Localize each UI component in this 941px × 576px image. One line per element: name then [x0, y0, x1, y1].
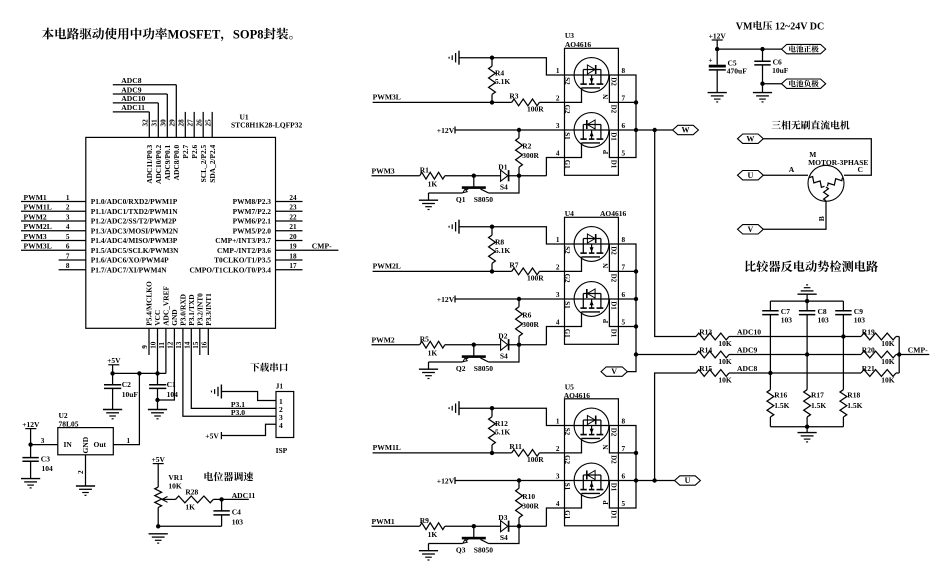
pin labels U4 row3 — [556, 291, 626, 299]
svg-text:R15: R15 — [699, 364, 712, 373]
svg-text:470uF: 470uF — [727, 67, 747, 76]
svg-text:PWM5/P2.0: PWM5/P2.0 — [233, 226, 272, 235]
svg-text:4: 4 — [279, 421, 283, 430]
wire net PWM2L — [373, 262, 512, 272]
rotated label G1 — [563, 510, 571, 519]
junction — [517, 478, 521, 482]
mcu pin 7 — [59, 252, 169, 264]
svg-text:2: 2 — [556, 263, 560, 271]
rotated label S1 — [563, 132, 571, 140]
resistor R16 1.5K — [767, 390, 790, 427]
ground — [798, 285, 817, 301]
wire W to ADC10 — [655, 130, 696, 337]
junction — [517, 174, 521, 178]
mcu pin 2 PWM1L — [21, 203, 178, 216]
net tag V — [601, 367, 627, 376]
capacitor C9 103 — [835, 301, 865, 325]
mcu pin 4 PWM2L — [21, 222, 179, 235]
mcu pin 12 GND — [158, 309, 180, 400]
svg-text:R9: R9 — [420, 516, 429, 525]
rotated label D2 — [610, 77, 618, 86]
svg-text:PWM2: PWM2 — [24, 212, 47, 221]
svg-text:V: V — [748, 225, 754, 234]
svg-text:C4: C4 — [232, 507, 241, 516]
mcu pin 6 PWM3L — [21, 242, 179, 255]
svg-text:R3: R3 — [509, 91, 518, 100]
svg-text:+12V: +12V — [22, 420, 40, 429]
ground — [76, 486, 95, 495]
svg-text:A: A — [789, 165, 795, 174]
wire bus U5 drains — [618, 426, 636, 509]
junction — [490, 56, 494, 60]
svg-text:R10: R10 — [522, 492, 535, 501]
svg-text:10K: 10K — [718, 376, 732, 385]
rotated label D1 — [610, 329, 618, 338]
ground — [798, 427, 817, 442]
junction — [110, 371, 114, 375]
rotated label G2 — [563, 274, 571, 283]
junction — [652, 478, 656, 482]
junction — [490, 100, 494, 104]
junction — [653, 128, 657, 132]
capacitor C7 103 — [762, 301, 792, 325]
title note — [42, 27, 293, 41]
svg-text:PWM6/P2.1: PWM6/P2.1 — [233, 217, 272, 226]
svg-text:20: 20 — [289, 233, 297, 241]
svg-text:VM: VM — [736, 21, 753, 32]
svg-text:R7: R7 — [509, 260, 518, 269]
net tag U2 — [738, 171, 764, 180]
wire column C7 — [769, 315, 771, 390]
ground — [708, 93, 727, 102]
wire — [609, 426, 618, 453]
svg-text:STC8H1K28-LQFP32: STC8H1K28-LQFP32 — [231, 121, 303, 130]
wire — [489, 176, 520, 193]
svg-text:10K: 10K — [718, 339, 732, 348]
svg-text:R21: R21 — [862, 364, 875, 373]
svg-text:R18: R18 — [847, 391, 860, 400]
capacitor C5 470uF — [709, 49, 748, 93]
rotated label D2 — [610, 246, 618, 255]
power +12V — [709, 31, 727, 49]
wire net CMP- — [899, 346, 929, 355]
wire — [609, 244, 618, 271]
resistor R28 — [176, 488, 214, 512]
junction — [490, 269, 494, 273]
wire — [489, 345, 520, 362]
pin labels U3 row1 — [556, 67, 626, 75]
svg-text:8: 8 — [622, 236, 626, 244]
pin labels U5 row4 — [556, 500, 626, 508]
pin labels U3 row2 — [556, 94, 626, 102]
resistor R1 1K — [420, 165, 501, 188]
connector J1 body — [276, 382, 294, 455]
svg-text:2: 2 — [66, 204, 70, 212]
junction — [517, 343, 521, 347]
svg-text:ADC10/P0.2: ADC10/P0.2 — [154, 145, 163, 185]
svg-text:300R: 300R — [522, 151, 539, 160]
svg-text:C2: C2 — [122, 380, 131, 389]
svg-text:R19: R19 — [862, 327, 875, 336]
svg-text:1: 1 — [556, 67, 560, 75]
wire U2 pin3 — [31, 437, 58, 445]
svg-text:IN: IN — [64, 440, 73, 449]
wire J1 pin2 P3.1 — [231, 400, 245, 409]
ground — [103, 410, 122, 419]
svg-text:5.1K: 5.1K — [495, 428, 510, 437]
ground — [419, 193, 438, 210]
diode D3 S4 — [498, 513, 508, 542]
junction — [472, 343, 476, 347]
mcu pin 29 — [169, 85, 182, 181]
svg-text:ADC8: ADC8 — [737, 364, 757, 373]
wire U2 pin2 gnd — [77, 455, 85, 486]
svg-text:6: 6 — [622, 122, 626, 130]
svg-text:AO4616: AO4616 — [565, 40, 592, 49]
mcu pin 28 — [178, 112, 191, 159]
resistor R7 100R — [509, 260, 564, 282]
svg-text:R6: R6 — [522, 310, 531, 319]
svg-text:ADC11: ADC11 — [121, 103, 145, 112]
svg-text:G2: G2 — [563, 274, 571, 283]
mcu pin 24 — [233, 194, 303, 206]
pin labels U3 row4 — [556, 150, 626, 158]
power +5V — [152, 455, 166, 487]
wire bus U3 drains — [618, 75, 636, 158]
svg-text:GND: GND — [81, 436, 90, 453]
wire +5V to U2 out — [113, 373, 139, 444]
svg-text:D2: D2 — [610, 246, 618, 255]
wire W out — [636, 129, 673, 131]
svg-text:R20: R20 — [862, 345, 875, 354]
net tag battery- — [782, 79, 826, 88]
svg-text:103: 103 — [232, 518, 244, 527]
svg-text:1.5K: 1.5K — [774, 401, 789, 410]
svg-text:ADC10: ADC10 — [737, 327, 761, 336]
resistor R6 300R — [516, 299, 540, 345]
rotated label S2 — [563, 428, 571, 436]
svg-text:U: U — [748, 171, 754, 180]
svg-text:7: 7 — [66, 252, 70, 260]
svg-text:CMP+/INT3/P3.7: CMP+/INT3/P3.7 — [215, 236, 271, 245]
svg-text:P3.0: P3.0 — [231, 408, 245, 417]
svg-text:S1: S1 — [563, 483, 571, 491]
rotated label D2 — [610, 105, 618, 114]
svg-text:S8050: S8050 — [474, 195, 493, 204]
svg-text:8: 8 — [622, 418, 626, 426]
svg-text:S8050: S8050 — [474, 364, 493, 373]
rotated label S2 — [563, 77, 571, 85]
svg-text:3: 3 — [556, 122, 560, 130]
wire — [509, 508, 565, 526]
junction — [634, 297, 638, 301]
svg-text:6: 6 — [66, 243, 70, 251]
mcu pin 15 P3.2/INT0 — [192, 293, 205, 355]
ground — [148, 410, 167, 419]
junction — [137, 371, 141, 375]
wire — [429, 361, 463, 363]
regulator U2 78L05 body — [58, 411, 131, 455]
wire net ADC8 — [113, 76, 177, 85]
wire — [158, 525, 221, 527]
junction — [517, 524, 521, 528]
wire J1 pin3 P3.0 — [231, 408, 245, 417]
svg-text:2: 2 — [556, 445, 560, 453]
svg-text:W: W — [682, 126, 690, 135]
svg-text:J1: J1 — [276, 382, 284, 391]
svg-text:Out: Out — [94, 440, 107, 449]
junction — [490, 451, 494, 455]
mcu pin 23 — [233, 204, 303, 216]
wire — [459, 408, 565, 425]
resistor R11 100R — [509, 442, 564, 464]
svg-text:17: 17 — [289, 262, 297, 270]
junction — [634, 478, 638, 482]
svg-text:PWM3: PWM3 — [24, 232, 47, 241]
svg-text:D1: D1 — [610, 132, 618, 141]
dual mosfet U3 AO4616 body — [565, 31, 619, 175]
mcu pin 20 — [215, 233, 302, 245]
label VM voltage — [736, 21, 824, 33]
wire — [763, 165, 808, 175]
svg-text:11: 11 — [158, 342, 166, 349]
svg-text:D2: D2 — [610, 274, 618, 283]
svg-text:+12V: +12V — [437, 477, 455, 486]
transistor Q3 S8050 — [456, 526, 493, 554]
mcu pin 17 — [189, 262, 302, 274]
mcu U1 body — [86, 137, 276, 328]
junction — [805, 352, 809, 356]
svg-text:PWM1L: PWM1L — [24, 203, 52, 212]
svg-text:CMP-: CMP- — [908, 346, 928, 355]
svg-text:10K: 10K — [881, 339, 895, 348]
junction — [634, 100, 638, 104]
potentiometer VR1 — [155, 473, 183, 526]
mosfet N-channel of U4 — [565, 227, 619, 272]
wire — [509, 327, 565, 345]
svg-text:1K: 1K — [428, 180, 438, 189]
svg-text:29: 29 — [169, 119, 177, 127]
ground — [212, 385, 222, 399]
svg-text:32: 32 — [142, 119, 150, 127]
wire — [609, 299, 618, 327]
svg-text:16: 16 — [201, 341, 209, 349]
resistor R14 10K — [696, 345, 861, 366]
svg-text:S8050: S8050 — [474, 545, 493, 554]
wire — [609, 75, 618, 102]
diode D2 S4 — [498, 331, 508, 360]
svg-text:CMPO/T1CLKO/T0/P3.4: CMPO/T1CLKO/T0/P3.4 — [189, 265, 271, 274]
ground — [419, 544, 438, 561]
mcu U1 refdes — [231, 113, 303, 130]
junction — [634, 324, 638, 328]
mosfet P-channel of U5 — [565, 463, 619, 508]
resistor R20 10K — [861, 345, 899, 366]
wire — [763, 139, 871, 176]
svg-text:W: W — [746, 134, 754, 143]
resistor R10 300R — [516, 481, 540, 527]
junction — [768, 371, 772, 375]
svg-text:G1: G1 — [563, 329, 571, 338]
svg-text:30: 30 — [160, 119, 168, 127]
svg-text:8: 8 — [66, 262, 70, 270]
svg-text:G1: G1 — [563, 160, 571, 169]
wire net ADC10 — [113, 94, 159, 103]
mcu pin 1 PWM1 — [21, 193, 178, 206]
wire — [429, 192, 463, 194]
svg-text:26: 26 — [195, 119, 203, 127]
wire net ADC11 — [113, 103, 150, 112]
svg-text:1.5K: 1.5K — [811, 401, 826, 410]
svg-text:U: U — [685, 476, 691, 485]
rotated label G1 — [563, 329, 571, 338]
wire J1 pin1 gnd — [221, 392, 276, 401]
svg-text:R1: R1 — [420, 165, 429, 174]
junction — [841, 334, 845, 338]
junction — [517, 297, 521, 301]
svg-text:S2: S2 — [563, 246, 571, 254]
svg-text:25: 25 — [204, 119, 212, 127]
junction — [634, 352, 638, 356]
dual mosfet U4 AO4616 body — [565, 209, 627, 344]
svg-text:PWM2L: PWM2L — [373, 262, 401, 271]
mcu pin 19 CMP- net — [217, 242, 338, 255]
pin labels U4 row4 — [556, 319, 626, 327]
rotated label D2 — [610, 428, 618, 437]
svg-text:5.1K: 5.1K — [495, 77, 510, 86]
pin labels U4 row1 — [556, 236, 626, 244]
svg-text:Q3: Q3 — [456, 545, 466, 554]
resistor R5 1K — [420, 334, 501, 357]
svg-text:V: V — [611, 367, 617, 376]
dual mosfet U5 AO4616 body — [564, 383, 619, 526]
label download port — [250, 363, 287, 372]
svg-text:1: 1 — [127, 437, 131, 445]
svg-text:D1: D1 — [610, 160, 618, 169]
svg-text:R16: R16 — [774, 391, 787, 400]
resistor R18 1.5K — [840, 390, 863, 427]
svg-text:R13: R13 — [699, 327, 712, 336]
pin labels U3 row3 — [556, 122, 626, 130]
wire J1 pin4 +5V — [205, 424, 276, 440]
svg-text:4: 4 — [556, 500, 560, 508]
svg-text:10: 10 — [150, 341, 158, 349]
ground — [419, 362, 438, 379]
power +12V — [22, 420, 40, 445]
svg-text:S1: S1 — [563, 132, 571, 140]
junction — [805, 425, 809, 429]
wire bus U4 drains — [618, 244, 636, 372]
ground — [449, 401, 459, 415]
junction — [155, 398, 159, 402]
svg-text:5: 5 — [66, 233, 70, 241]
svg-text:U4: U4 — [565, 209, 574, 218]
svg-text:D1: D1 — [610, 483, 618, 492]
svg-text:104: 104 — [42, 464, 54, 473]
mcu pin 21 — [233, 223, 303, 235]
resistor R9 1K — [420, 516, 501, 539]
svg-text:P1.0/ADC0/RXD2/PWM1P: P1.0/ADC0/RXD2/PWM1P — [91, 197, 178, 206]
junction — [219, 497, 223, 501]
resistor R8 5.1K — [489, 227, 511, 272]
svg-text:MOTOR-3PHASE: MOTOR-3PHASE — [808, 158, 868, 167]
rotated label G2 — [563, 455, 571, 464]
svg-text:ISP: ISP — [276, 446, 288, 455]
svg-text:D2: D2 — [610, 105, 618, 114]
mosfet N-channel of U3 — [565, 58, 619, 103]
svg-text:P2.6: P2.6 — [190, 145, 199, 159]
svg-text:10K: 10K — [881, 376, 895, 385]
mcu pin 16 P3.3/INT1 — [201, 293, 214, 355]
mcu pin 8 — [59, 262, 168, 274]
ground — [449, 51, 459, 65]
svg-text:D1: D1 — [498, 162, 507, 171]
svg-text:1: 1 — [556, 236, 560, 244]
wire CMP- bus — [898, 337, 900, 374]
svg-text:4: 4 — [556, 150, 560, 158]
wire top rail — [770, 300, 843, 302]
svg-text:P1.6/ADC6/XO/PWM4P: P1.6/ADC6/XO/PWM4P — [91, 256, 169, 265]
junction — [634, 451, 638, 455]
svg-text:SCL_2/P2.5: SCL_2/P2.5 — [199, 144, 208, 182]
svg-text:10uF: 10uF — [772, 66, 789, 75]
resistor R21 10K — [861, 364, 899, 385]
junction — [760, 47, 764, 51]
resistor R15 10K — [696, 364, 861, 385]
svg-text:PWM3L: PWM3L — [373, 93, 401, 102]
junction — [760, 82, 764, 86]
svg-text:ADC8/P0.0: ADC8/P0.0 — [172, 144, 181, 180]
svg-text:S2: S2 — [563, 77, 571, 85]
svg-text:8: 8 — [622, 67, 626, 75]
wire net PWM2 — [372, 336, 420, 345]
svg-text:ADC11: ADC11 — [232, 491, 256, 500]
svg-text:3: 3 — [66, 213, 70, 221]
svg-text:S4: S4 — [500, 182, 508, 191]
wire column C9 — [842, 315, 844, 390]
mcu pin 30 — [160, 94, 173, 180]
svg-text:P1.3/ADC3/MOSI/PWM2N: P1.3/ADC3/MOSI/PWM2N — [91, 226, 179, 235]
svg-text:12: 12 — [167, 341, 175, 349]
svg-text:7: 7 — [622, 263, 626, 271]
svg-text:PWM1: PWM1 — [24, 193, 47, 202]
svg-text:103: 103 — [854, 316, 866, 325]
capacitor C3 — [22, 445, 53, 479]
rotated label D2 — [610, 274, 618, 283]
svg-text:PWM1L: PWM1L — [373, 443, 401, 452]
mcu pin 22 — [233, 213, 303, 225]
svg-text:R2: R2 — [522, 141, 531, 150]
wire bottom rail — [770, 426, 843, 428]
svg-text:300R: 300R — [522, 502, 539, 511]
capacitor C1 — [149, 380, 178, 410]
wire — [763, 83, 782, 85]
svg-text:S1: S1 — [563, 301, 571, 309]
svg-text:1.5K: 1.5K — [847, 401, 862, 410]
svg-text:S4: S4 — [500, 533, 508, 542]
svg-text:+12V: +12V — [709, 31, 727, 40]
junction — [156, 524, 160, 528]
net tag W — [673, 125, 699, 134]
svg-text:1K: 1K — [185, 503, 195, 512]
svg-text:G1: G1 — [563, 510, 571, 519]
svg-text:PWM2L: PWM2L — [24, 222, 52, 231]
label pot speed — [204, 472, 253, 481]
svg-text:1K: 1K — [428, 530, 438, 539]
svg-text:ADC8: ADC8 — [121, 76, 141, 85]
mcu pin 11 ADC_VREF — [158, 285, 171, 373]
svg-text:P1.4/ADC4/MISO/PWM3P: P1.4/ADC4/MISO/PWM3P — [91, 236, 178, 245]
